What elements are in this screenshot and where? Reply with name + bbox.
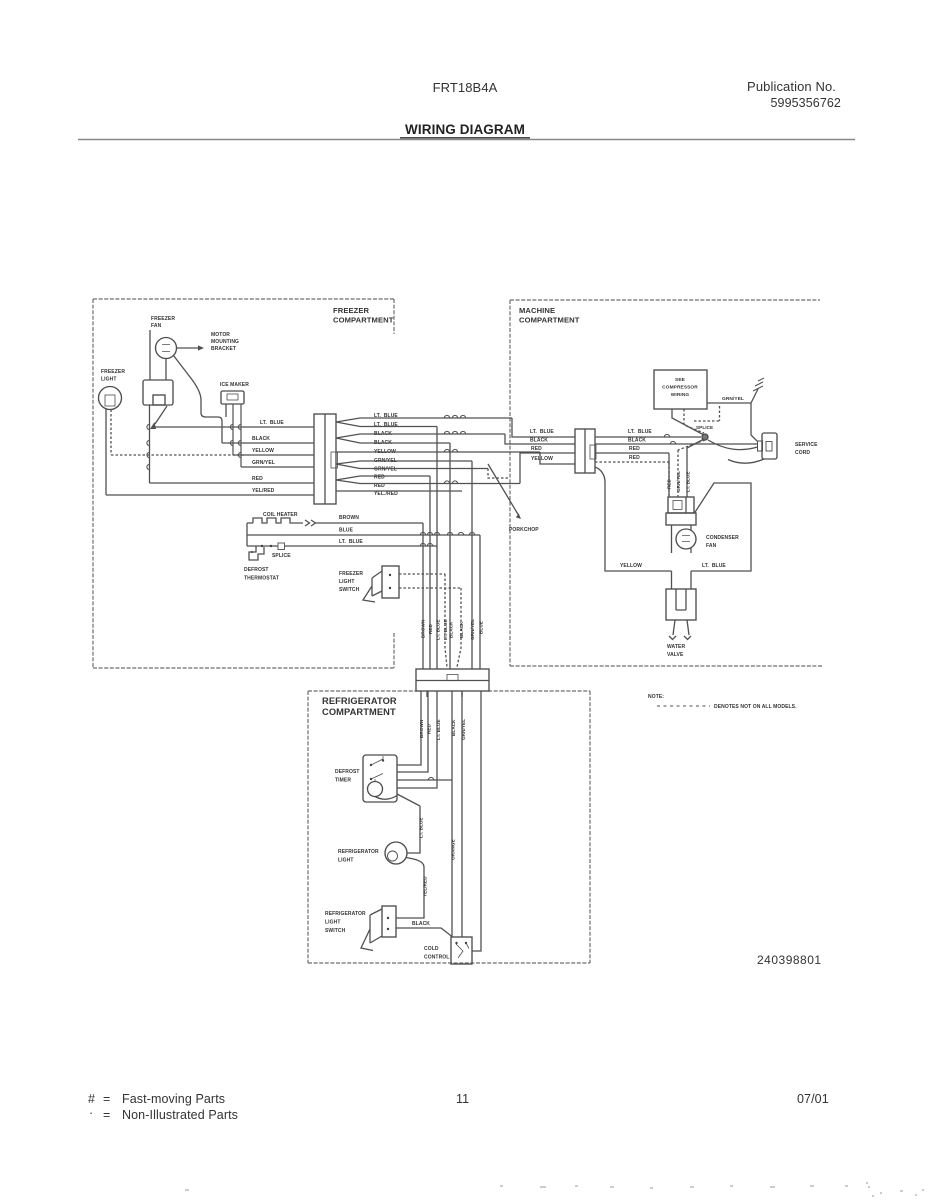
- svg-text:GRN/YEL: GRN/YEL: [461, 719, 466, 740]
- svg-text:TIMER: TIMER: [335, 778, 351, 784]
- svg-text:GRN/YEL: GRN/YEL: [676, 471, 681, 492]
- svg-text:FREEZER: FREEZER: [339, 571, 363, 577]
- svg-text:REFRIGERATOR: REFRIGERATOR: [338, 849, 379, 855]
- svg-text:DEFROST: DEFROST: [335, 769, 360, 775]
- svg-text:RED: RED: [629, 455, 640, 461]
- svg-text:REFRIGERATOR: REFRIGERATOR: [325, 911, 366, 917]
- svg-text:LT. BLUE: LT. BLUE: [436, 619, 441, 640]
- svg-text:COLD: COLD: [424, 946, 439, 952]
- svg-text:ORANGE: ORANGE: [451, 839, 456, 860]
- svg-text:YELLOW: YELLOW: [252, 448, 274, 454]
- svg-text:Non-Illustrated Parts: Non-Illustrated Parts: [122, 1108, 238, 1122]
- svg-text:·: ·: [89, 1106, 93, 1120]
- svg-text:COMPRESSOR: COMPRESSOR: [662, 385, 698, 391]
- svg-text:FREEZER: FREEZER: [151, 316, 175, 322]
- svg-text:LT. BLUE: LT. BLUE: [530, 429, 554, 435]
- svg-text:240398801: 240398801: [757, 953, 822, 967]
- svg-text:BLACK: BLACK: [628, 438, 646, 444]
- svg-text:LT. BLUE: LT. BLUE: [686, 471, 691, 492]
- svg-text:WATER: WATER: [667, 644, 685, 650]
- svg-text:GRN/YEL: GRN/YEL: [252, 460, 275, 466]
- svg-text:YELLOW: YELLOW: [620, 563, 642, 569]
- svg-text:BLUE: BLUE: [479, 621, 484, 634]
- svg-text:COIL HEATER: COIL HEATER: [263, 512, 298, 518]
- svg-text:COMPARTMENT: COMPARTMENT: [322, 707, 396, 717]
- svg-text:LT. BLUE: LT. BLUE: [628, 429, 652, 435]
- svg-text:BROWN: BROWN: [419, 719, 424, 738]
- svg-text:LT. BLUE: LT. BLUE: [260, 420, 284, 426]
- svg-text:CORD: CORD: [795, 450, 810, 456]
- svg-text:MOUNTING: MOUNTING: [211, 339, 239, 345]
- svg-text:FAN: FAN: [151, 323, 162, 329]
- svg-text:LIGHT: LIGHT: [339, 579, 355, 585]
- svg-text:LT. BLUE: LT. BLUE: [436, 719, 441, 740]
- svg-text:SERVICE: SERVICE: [795, 442, 818, 448]
- svg-text:FREEZER: FREEZER: [333, 306, 370, 315]
- svg-text:THERMOSTAT: THERMOSTAT: [244, 576, 279, 582]
- svg-text:RED: RED: [428, 623, 433, 634]
- svg-text:YELLOW: YELLOW: [531, 456, 553, 462]
- svg-text:GRN/YEL: GRN/YEL: [374, 467, 397, 473]
- svg-text:NOTE:: NOTE:: [648, 694, 664, 700]
- svg-text:RED: RED: [252, 476, 263, 482]
- svg-text:BLACK: BLACK: [252, 436, 270, 442]
- svg-text:SEE: SEE: [675, 377, 686, 383]
- svg-text:GRN/YEL: GRN/YEL: [722, 396, 744, 402]
- svg-text:LT. BLUE: LT. BLUE: [443, 619, 448, 640]
- svg-text:11: 11: [456, 1092, 469, 1106]
- svg-text:RED: RED: [531, 446, 542, 452]
- svg-text:SPLICE: SPLICE: [272, 553, 291, 559]
- svg-text:FAN: FAN: [706, 543, 717, 549]
- svg-text:BLACK: BLACK: [459, 621, 464, 638]
- svg-text:FRT18B4A: FRT18B4A: [433, 80, 498, 95]
- svg-text:CONDENSER: CONDENSER: [706, 535, 739, 541]
- svg-text:07/01: 07/01: [797, 1092, 829, 1106]
- svg-text:MACHINE: MACHINE: [519, 306, 555, 315]
- svg-text:BLACK: BLACK: [530, 438, 548, 444]
- svg-text:MOTOR: MOTOR: [211, 332, 230, 338]
- svg-text:=: =: [103, 1108, 110, 1122]
- svg-text:PORKCHOP: PORKCHOP: [509, 527, 539, 533]
- svg-text:YEL/RED: YEL/RED: [423, 876, 428, 897]
- svg-text:GRN/YEL: GRN/YEL: [470, 619, 475, 640]
- svg-text:WIRING: WIRING: [671, 392, 690, 398]
- svg-text:BRACKET: BRACKET: [211, 346, 236, 352]
- svg-text:RED: RED: [629, 446, 640, 452]
- svg-text:BROWN: BROWN: [339, 515, 359, 521]
- svg-text:COMPARTMENT: COMPARTMENT: [333, 316, 394, 325]
- svg-text:DENOTES NOT ON ALL MODELS.: DENOTES NOT ON ALL MODELS.: [714, 704, 797, 710]
- svg-text:5995356762: 5995356762: [770, 96, 841, 110]
- svg-text:=: =: [103, 1092, 110, 1106]
- svg-text:SWITCH: SWITCH: [325, 928, 346, 934]
- svg-text:VALVE: VALVE: [667, 652, 684, 658]
- svg-text:LT. BLUE: LT. BLUE: [419, 817, 424, 838]
- svg-text:RED: RED: [427, 723, 432, 734]
- svg-text:WIRING DIAGRAM: WIRING DIAGRAM: [405, 122, 525, 137]
- svg-text:LT. BLUE: LT. BLUE: [702, 563, 726, 569]
- svg-text:REFRIGERATOR: REFRIGERATOR: [322, 696, 397, 706]
- svg-text:RED: RED: [667, 478, 672, 489]
- svg-text:LIGHT: LIGHT: [325, 920, 341, 926]
- svg-text:LIGHT: LIGHT: [101, 377, 117, 383]
- svg-text:BLUE: BLUE: [339, 528, 354, 534]
- svg-text:Fast-moving Parts: Fast-moving Parts: [122, 1092, 225, 1106]
- svg-text:BLACK: BLACK: [412, 921, 430, 927]
- svg-text:CONTROL: CONTROL: [424, 955, 449, 961]
- svg-text:SWITCH: SWITCH: [339, 587, 360, 593]
- svg-text:FREEZER: FREEZER: [101, 369, 125, 375]
- svg-text:BLACK: BLACK: [451, 719, 456, 736]
- svg-text:COMPARTMENT: COMPARTMENT: [519, 316, 580, 325]
- svg-text:YEL/RED: YEL/RED: [252, 488, 275, 494]
- svg-text:ICE MAKER: ICE MAKER: [220, 382, 249, 388]
- svg-text:BROWN: BROWN: [421, 619, 426, 638]
- svg-text:LT. BLUE: LT. BLUE: [339, 539, 363, 545]
- svg-text:LIGHT: LIGHT: [338, 858, 354, 864]
- svg-text:YEL./RED: YEL./RED: [374, 491, 398, 497]
- svg-text:#: #: [88, 1092, 95, 1106]
- svg-text:SPLICE: SPLICE: [696, 425, 713, 430]
- svg-text:BLACK: BLACK: [449, 621, 454, 638]
- svg-text:Publication No.: Publication No.: [747, 79, 836, 94]
- svg-text:DEFROST: DEFROST: [244, 567, 269, 573]
